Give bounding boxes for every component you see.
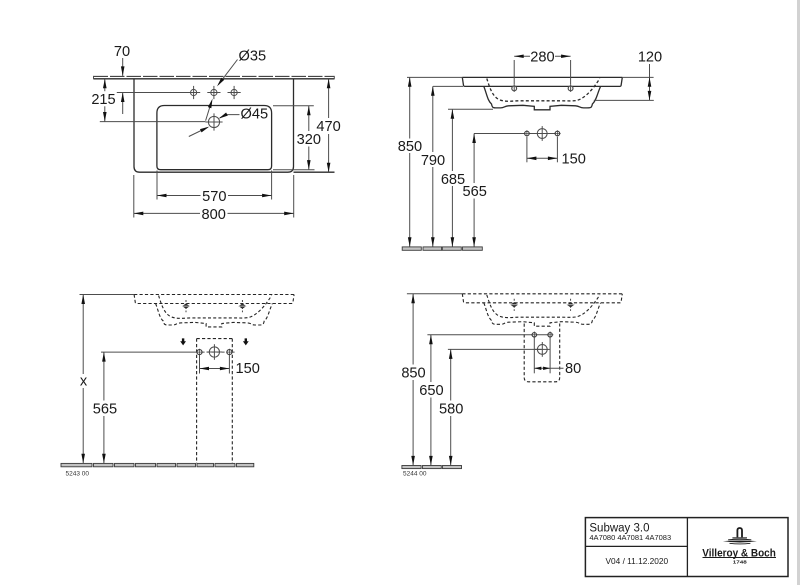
svg-text:V04 / 11.12.2020: V04 / 11.12.2020 bbox=[606, 556, 669, 566]
svg-text:790: 790 bbox=[421, 153, 445, 169]
svg-text:565: 565 bbox=[463, 184, 487, 200]
svg-text:215: 215 bbox=[91, 92, 115, 108]
svg-text:80: 80 bbox=[565, 361, 581, 377]
svg-text:800: 800 bbox=[202, 207, 226, 223]
svg-text:5243 00: 5243 00 bbox=[66, 471, 90, 478]
svg-text:150: 150 bbox=[236, 361, 260, 377]
svg-text:570: 570 bbox=[202, 189, 226, 205]
svg-text:850: 850 bbox=[398, 139, 422, 155]
svg-text:685: 685 bbox=[441, 172, 465, 188]
svg-text:850: 850 bbox=[401, 366, 425, 382]
svg-text:5244 00: 5244 00 bbox=[403, 471, 427, 478]
svg-text:150: 150 bbox=[562, 152, 586, 168]
svg-text:320: 320 bbox=[297, 132, 321, 148]
svg-text:280: 280 bbox=[530, 50, 554, 66]
svg-text:565: 565 bbox=[93, 402, 117, 418]
svg-text:Ø45: Ø45 bbox=[241, 107, 269, 123]
svg-text:120: 120 bbox=[638, 50, 662, 66]
svg-text:70: 70 bbox=[114, 44, 130, 60]
svg-text:Ø35: Ø35 bbox=[239, 48, 267, 64]
svg-text:1748: 1748 bbox=[733, 560, 748, 565]
svg-text:650: 650 bbox=[419, 383, 443, 399]
svg-text:4A7080 4A7081 4A7083: 4A7080 4A7081 4A7083 bbox=[589, 533, 671, 542]
svg-text:x: x bbox=[80, 373, 88, 389]
svg-text:580: 580 bbox=[439, 402, 463, 418]
